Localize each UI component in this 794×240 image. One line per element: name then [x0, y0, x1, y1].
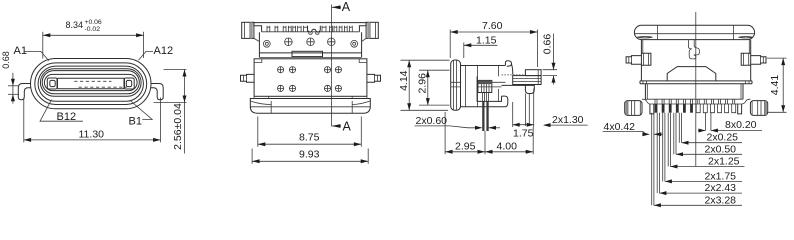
svg-text:1.75: 1.75 [513, 128, 534, 140]
left foot lines [626, 101, 640, 116]
dim 1.75 line [513, 124, 534, 126]
svg-text:2x1.25: 2x1.25 [708, 156, 740, 168]
leg pair left [483, 93, 489, 102]
dim 8.34 line [43, 34, 144, 36]
dim 11.30 arrows [24, 138, 32, 142]
dim 11.30 line [24, 139, 161, 141]
right latch inner [126, 80, 131, 86]
leader B1 [131, 101, 153, 120]
dim 2.56 arrows [183, 70, 187, 77]
right wide pad [738, 104, 742, 114]
dim 2.56 ext bottom [154, 102, 187, 104]
shell inner stadium [35, 63, 147, 105]
svg-text:2.95: 2.95 [455, 140, 476, 152]
left side pin [626, 56, 641, 65]
spring contact curl [505, 61, 511, 67]
svg-text:2x1.75: 2x1.75 [705, 170, 737, 182]
right side pin lines [375, 75, 378, 81]
leader A12 [139, 51, 154, 60]
mid body [254, 59, 367, 97]
svg-text:A: A [342, 0, 351, 14]
center housing block [667, 67, 716, 81]
8x0.20 underline [717, 130, 762, 132]
svg-text:2x3.28: 2x3.28 [705, 194, 737, 206]
dim 0.68 ext bottom [8, 93, 19, 95]
rear lower notch [502, 85, 535, 93]
comb baseline [262, 31, 360, 33]
upper screw band [259, 32, 361, 57]
right foot lines [752, 101, 766, 116]
corner screw left [263, 40, 270, 47]
leader A1 [25, 51, 49, 60]
ext 7.60 [450, 30, 537, 68]
body-bar connectors [254, 96, 367, 98]
left wing [242, 22, 254, 38]
center latch notch [308, 26, 321, 32]
top flange bar [254, 23, 366, 32]
dim 7.60 line [450, 31, 537, 33]
left foot [625, 101, 642, 116]
body bottom line [645, 98, 743, 100]
left ear lines [643, 53, 648, 65]
body behind cap [461, 66, 506, 107]
comb baseline [650, 103, 742, 105]
8x0.20 arrows [698, 130, 717, 132]
curl descender [512, 64, 513, 75]
dim 0.68 line+arrows [12, 73, 14, 104]
right wing [366, 22, 378, 38]
slot lines through body [478, 82, 506, 87]
svg-text:2.56±0.04: 2.56±0.04 [172, 103, 184, 150]
svg-text:4.14: 4.14 [398, 70, 410, 91]
band corner chamfers [254, 38, 366, 41]
shell third stadium [38, 66, 143, 101]
svg-text:8.75: 8.75 [299, 131, 320, 143]
dim 0.66 line [553, 34, 555, 85]
top shell bar [634, 25, 754, 39]
hatched contact block [478, 80, 492, 92]
tongue outline [57, 78, 125, 88]
right mounting leg [151, 84, 164, 100]
svg-text:+0.06: +0.06 [85, 19, 102, 26]
section arrow top [332, 6, 342, 8]
mid body corner notches [254, 59, 367, 63]
ext line 11.30 right [159, 98, 161, 143]
dim 9.93 line [252, 160, 368, 162]
right foot [750, 101, 767, 116]
svg-text:2x2.43: 2x2.43 [705, 182, 737, 194]
latch notch lower lobes [309, 32, 319, 34]
ext 9.93 [252, 149, 368, 164]
svg-text:7.60: 7.60 [482, 20, 503, 32]
plate lines [513, 76, 541, 85]
right wing lines [368, 22, 375, 38]
svg-text:11.30: 11.30 [79, 129, 105, 141]
ext line 8.34 left [42, 32, 44, 59]
bottom bar [250, 99, 370, 114]
right side pin [367, 74, 381, 82]
svg-text:4.41: 4.41 [769, 75, 781, 96]
svg-text:8.34: 8.34 [66, 20, 84, 30]
ext line 11.30 left [23, 98, 25, 143]
left foot neck [642, 99, 650, 104]
svg-text:2x0.25: 2x0.25 [707, 132, 739, 144]
bottom bar vlines [271, 101, 352, 113]
svg-text:0.68: 0.68 [1, 51, 11, 69]
pin leader lines left [652, 113, 654, 206]
svg-text:2x0.50: 2x0.50 [705, 143, 737, 155]
front cap [451, 60, 461, 110]
dim 2.96 line [427, 70, 429, 105]
4x0.42 underline [603, 131, 644, 133]
lower body [645, 84, 743, 99]
svg-text:2x1.30: 2x1.30 [552, 114, 584, 126]
rear tab top (0.66) [525, 70, 541, 76]
ext lines bottom [445, 112, 533, 154]
ext 4.14 [401, 60, 450, 110]
shell outer stadium [31, 59, 152, 109]
housing stadium outer [40, 69, 141, 97]
left mounting leg [18, 84, 31, 100]
dim 8.34 arrows [43, 33, 51, 37]
centerline [695, 12, 697, 166]
teeth [655, 104, 736, 113]
rear tab top line [537, 70, 539, 76]
corner screw right [351, 40, 358, 47]
cross screw 3 [328, 38, 336, 46]
mid body block [477, 76, 501, 101]
left wide pad [650, 104, 654, 114]
bottom bar mid line [250, 106, 370, 108]
svg-text:A12: A12 [154, 45, 174, 57]
rear leg lines [525, 94, 529, 127]
dim 4.14 line [408, 60, 410, 110]
svg-text:2x0.60: 2x0.60 [416, 115, 448, 127]
body side inner lines [643, 40, 750, 54]
ext 4.41 [767, 58, 787, 112]
section line A-A vertical [331, 5, 333, 127]
dim 4.00 line [485, 151, 533, 153]
pin stubs above comb [655, 99, 735, 104]
housing stadium inner [42, 71, 139, 94]
2x1.30 underline+leader [544, 124, 588, 126]
dim 0.68 ext top [8, 85, 19, 87]
leg pins dark [482, 101, 484, 131]
mid body screws r2 [278, 85, 342, 91]
cross screw 1 [285, 38, 293, 46]
contact dashes top row [74, 80, 111, 82]
body rear vline [465, 66, 477, 107]
mid body right edge [498, 65, 500, 101]
svg-text:9.93: 9.93 [299, 148, 320, 160]
tongue seam rect [292, 51, 323, 56]
left pin lines [629, 57, 632, 63]
lower body inner lines [647, 84, 741, 99]
serrated tongue edge [502, 74, 526, 76]
svg-text:-0.02: -0.02 [85, 26, 101, 33]
flange [640, 81, 752, 84]
dim 1.15 line [464, 44, 498, 46]
right foot neck [742, 99, 751, 104]
svg-text:A: A [343, 120, 352, 134]
contact dashes bottom row [79, 86, 127, 88]
svg-text:1.15: 1.15 [476, 35, 497, 47]
cross screw 2 [307, 38, 315, 46]
cavity slot [44, 74, 137, 90]
mid body screws r1 [278, 67, 342, 73]
svg-text:4.00: 4.00 [497, 140, 518, 152]
right latch block [124, 78, 134, 89]
svg-text:4x0.42: 4x0.42 [604, 121, 636, 133]
flange notches [643, 81, 749, 84]
band bottom line [259, 56, 361, 58]
dim 2.95 line [445, 151, 485, 153]
left ear block [641, 53, 651, 65]
top bar mid line [635, 33, 754, 35]
right ear block [741, 53, 751, 65]
ext 8.75 [258, 117, 362, 147]
dim 2.56 ext top [164, 69, 187, 71]
2x0.60 arrows [450, 126, 476, 128]
right side pin [751, 56, 766, 65]
4x0.42 arrows [642, 132, 650, 136]
top bar cap lines [658, 25, 734, 39]
svg-text:0.66: 0.66 [542, 34, 554, 55]
right ear lines [744, 53, 749, 65]
dim 8.75 line [258, 143, 362, 145]
svg-text:B1: B1 [129, 115, 142, 127]
left wing lines [245, 22, 252, 38]
ext line 8.34 right [143, 32, 145, 58]
cap mid lines [451, 82, 461, 87]
cap face lines [454, 60, 457, 110]
dim 2.56 line [184, 70, 186, 154]
2x0.60 underline [415, 125, 450, 127]
body sides [641, 40, 750, 81]
ext 1.75 left [513, 89, 534, 128]
left side pin [241, 74, 255, 82]
4x0.42 leader [644, 132, 647, 135]
rear plate stack [513, 76, 541, 85]
right pin lines [761, 57, 764, 63]
left latch inner [50, 80, 55, 86]
left side pin lines [244, 75, 247, 81]
section arrow bottom [332, 125, 342, 127]
top bar left lens [637, 37, 652, 38]
center latch spring [688, 40, 694, 59]
ext 1.15 [463, 43, 465, 59]
dim 4.41 line [782, 58, 784, 112]
svg-text:8x0.20: 8x0.20 [725, 119, 757, 131]
ext 0.66 [543, 70, 558, 76]
comb teeth row [267, 26, 352, 32]
leader B12 [40, 100, 83, 122]
pin leader lines right (8x0.20) [705, 113, 711, 131]
bottom bar end arcs [251, 101, 371, 105]
ext 2.96 [419, 70, 450, 105]
top bar right lens [739, 37, 753, 38]
rear bottom step [502, 96, 508, 107]
left latch block [47, 78, 57, 89]
